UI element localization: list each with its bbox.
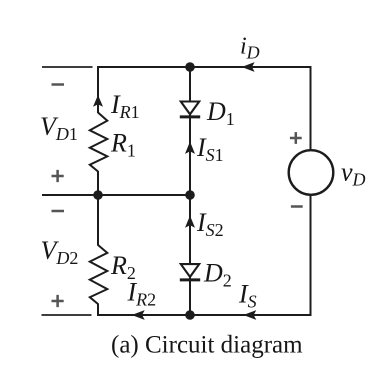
wire left branch below middle node (97, 194, 99, 246)
svg-text:R1: R1 (110, 128, 136, 160)
svg-text:VD1: VD1 (40, 112, 78, 144)
resistor R2 (90, 245, 108, 304)
svg-text:IR2: IR2 (127, 278, 157, 310)
diode D2 cathode bar (180, 278, 200, 281)
plus sign middle left (VD1) (52, 170, 64, 182)
node dot middle left (93, 190, 103, 200)
wire top horizontal (97, 66, 312, 68)
minus sign top left (52, 83, 65, 86)
current arrow IS2 (up) (185, 216, 195, 228)
wire middle branch top (node A to D1) (189, 66, 191, 102)
current arrow IS1 (up) (185, 142, 195, 154)
current arrow IS (left) (243, 310, 256, 320)
current arrow iD (left) (242, 62, 255, 72)
wire middle branch D1 to node B (189, 114, 191, 196)
wire bottom horizontal (97, 314, 312, 316)
svg-text:IS: IS (238, 280, 257, 312)
svg-text:(a) Circuit diagram: (a) Circuit diagram (111, 332, 303, 359)
svg-text:IS2: IS2 (196, 208, 224, 240)
svg-text:vD: vD (341, 158, 366, 190)
wire right branch lower (310, 195, 312, 316)
node dot top (185, 62, 195, 72)
resistor R1 (90, 113, 108, 172)
diode D1 cathode bar (180, 115, 200, 118)
wire middle branch node B to D2 (189, 194, 191, 264)
minus sign source bottom (291, 205, 303, 208)
svg-text:iD: iD (240, 34, 260, 63)
svg-text:D1: D1 (206, 97, 235, 129)
node dot middle right (185, 190, 195, 200)
voltage source vD (289, 150, 334, 195)
svg-text:IS1: IS1 (196, 133, 224, 165)
plus sign bottom left (52, 295, 64, 307)
wire middle horizontal (node to left terminal) (42, 194, 190, 196)
wire right branch upper (310, 66, 312, 151)
current arrow IR2 (left) (132, 310, 145, 320)
plus sign source top (290, 132, 302, 144)
diode D1 triangle (181, 102, 199, 115)
wire middle branch D2 to bottom node (189, 277, 191, 316)
terminal line top left (42, 66, 93, 68)
svg-text:IR1: IR1 (110, 90, 140, 122)
svg-text:D2: D2 (203, 259, 232, 291)
wire left branch upper (97, 66, 99, 113)
current arrow IR1 (up) (93, 95, 103, 107)
minus sign middle left (VD2) (52, 210, 65, 213)
wire left branch between R1 and middle node (97, 171, 99, 196)
diode D2 triangle (181, 264, 199, 277)
terminal line bottom left (42, 314, 92, 316)
node dot bottom (185, 310, 195, 320)
svg-text:VD2: VD2 (41, 236, 79, 268)
wire left branch bottom (97, 304, 99, 317)
